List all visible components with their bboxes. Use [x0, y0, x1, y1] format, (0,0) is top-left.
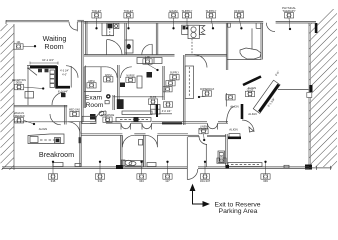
- svg-text:Room: Room: [86, 102, 104, 109]
- svg-text:LINEN: LINEN: [200, 126, 207, 129]
- svg-text:FREEZER: FREEZER: [13, 115, 24, 118]
- svg-text:CLOS: CLOS: [247, 88, 254, 91]
- svg-text:SH: SH: [220, 155, 224, 158]
- svg-text:Breakroom: Breakroom: [39, 150, 74, 159]
- svg-text:OFFICE: OFFICE: [234, 9, 244, 13]
- svg-text:117: 117: [165, 179, 170, 183]
- svg-text:LAB: LAB: [145, 56, 150, 59]
- svg-text:4'-0": 4'-0": [274, 70, 281, 77]
- svg-text:344-347: 344-347: [200, 179, 211, 183]
- svg-text:10'-1 3/4": 10'-1 3/4": [42, 58, 54, 62]
- svg-text:TOILET: TOILET: [124, 9, 134, 13]
- svg-text:THERAPY: THERAPY: [282, 9, 295, 13]
- svg-text:Parking Area: Parking Area: [219, 208, 258, 215]
- svg-text:SUPPLY: SUPPLY: [206, 9, 217, 13]
- svg-text:ALIGN: ALIGN: [229, 127, 237, 131]
- svg-text:COPIER/FAX: COPIER/FAX: [200, 88, 215, 91]
- svg-text:APPLI: APPLI: [88, 80, 95, 83]
- svg-text:APPLI: APPLI: [105, 74, 112, 77]
- svg-text:DESK: DESK: [16, 82, 23, 85]
- svg-text:ALIGN: ALIGN: [248, 112, 256, 116]
- svg-text:SUPPLY: SUPPLY: [170, 72, 180, 75]
- svg-text:4'-0": 4'-0": [62, 74, 67, 77]
- svg-text:101: 101: [17, 41, 22, 44]
- svg-text:ALIGN: ALIGN: [230, 105, 238, 109]
- svg-text:Exam: Exam: [85, 94, 103, 101]
- svg-text:CLOS: CLOS: [150, 96, 157, 99]
- svg-text:TOILET: TOILET: [92, 9, 102, 13]
- svg-text:4'-0 1/4": 4'-0 1/4": [162, 109, 172, 113]
- svg-text:MED GAS: MED GAS: [69, 109, 80, 112]
- svg-text:349: 349: [263, 179, 268, 183]
- svg-text:343: 343: [139, 179, 144, 183]
- svg-text:ALIGN: ALIGN: [39, 127, 47, 131]
- svg-text:EXAM: EXAM: [170, 9, 179, 13]
- svg-text:4'-3 1/4": 4'-3 1/4": [60, 70, 69, 73]
- svg-text:NURSE: NURSE: [126, 74, 135, 77]
- svg-text:342: 342: [98, 179, 103, 183]
- svg-text:6'-0 1/4": 6'-0 1/4": [58, 89, 68, 93]
- svg-text:SUPPLY: SUPPLY: [182, 9, 193, 13]
- svg-text:348: 348: [51, 179, 56, 183]
- svg-text:Room: Room: [44, 42, 63, 51]
- svg-text:APPLIANCE: APPLIANCE: [101, 114, 115, 117]
